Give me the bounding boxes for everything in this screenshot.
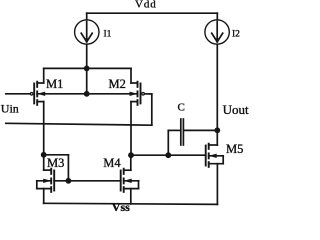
wire diode connection top: [44, 154, 69, 156]
svg-text:C: C: [178, 102, 185, 114]
transistor M1: [30, 82, 45, 105]
junction cap tap node: [165, 152, 171, 158]
wire tail to bulk line: [86, 68, 88, 93]
wire bulk line M1-M2: [37, 93, 137, 95]
wire cap left lead: [168, 129, 180, 131]
svg-text:M2: M2: [109, 77, 126, 91]
junction mirror gate node: [66, 178, 72, 184]
transistor M4: [121, 169, 139, 192]
junction M3 drain node: [41, 152, 47, 158]
junction second stage node: [128, 152, 134, 158]
svg-text:I2: I2: [232, 29, 240, 39]
junction Uout node: [214, 127, 220, 133]
svg-text:M1: M1: [46, 77, 63, 91]
wire Uin- line: [6, 123, 152, 125]
wire M1 drain riser: [43, 102, 45, 155]
wire M1/M2 source line: [44, 67, 131, 69]
svg-text:Uout: Uout: [223, 102, 249, 117]
current source I2: [205, 13, 229, 44]
current source I1: [75, 13, 99, 44]
wire Uin+ to M1 gate: [6, 93, 31, 95]
transistor M2: [130, 82, 145, 105]
transistor M3: [37, 169, 54, 192]
wire M5 source lead: [216, 164, 218, 205]
wire M2 drain riser: [130, 102, 132, 156]
wire I2 to Uout node: [216, 44, 218, 130]
wire M2 gate to corner: [145, 93, 152, 95]
wire M4 drain riser: [130, 155, 132, 170]
wire M1 source riser: [43, 68, 45, 83]
wire cap right lead: [184, 129, 217, 131]
svg-text:Uin: Uin: [1, 102, 19, 116]
transistor M5: [206, 144, 224, 167]
wire corner down: [151, 94, 153, 125]
wire M2 source riser: [130, 68, 132, 83]
junction source node: [84, 66, 90, 72]
svg-text:Vss: Vss: [112, 200, 130, 214]
svg-text:Vdd: Vdd: [135, 0, 157, 10]
Vss rail: [44, 203, 218, 204]
wire I1 to tail node: [86, 44, 88, 68]
svg-text:M3: M3: [47, 156, 64, 170]
wire M3 drain: [43, 155, 45, 170]
wire diode connection down: [67, 155, 69, 181]
svg-text:M5: M5: [226, 142, 243, 156]
wire M3 source lead: [43, 189, 45, 204]
wire cap tap riser: [167, 130, 169, 155]
Vdd rail: [87, 12, 218, 14]
junction bulk node: [84, 91, 90, 97]
wire Uout node to M5 drain: [216, 130, 218, 145]
wire mirror gate line M3-M4: [54, 180, 121, 182]
capacitor C: [181, 119, 184, 145]
wire second stage line to M5 gate: [131, 154, 206, 156]
svg-text:M4: M4: [103, 156, 121, 170]
wire M4 source lead: [130, 189, 132, 204]
svg-text:I1: I1: [104, 29, 112, 39]
